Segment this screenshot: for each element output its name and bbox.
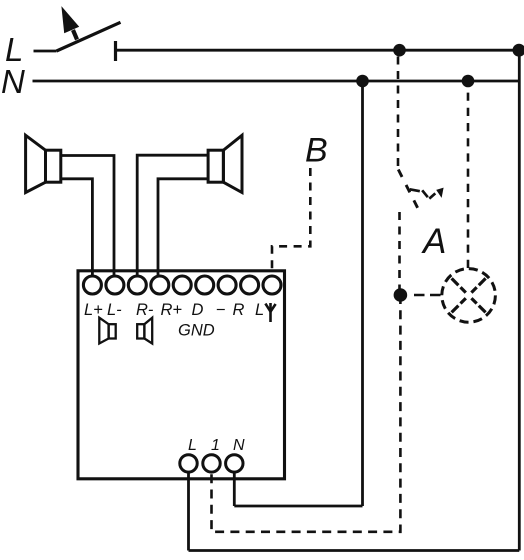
bottom terminal N [226,455,243,472]
svg-text:N: N [1,63,25,100]
svg-text:D: D [192,301,204,319]
wire: N bottom run [234,505,362,508]
svg-text:L: L [188,437,197,454]
switch A blade (dashed) [398,170,418,209]
receiver box U1 [78,271,285,479]
terminal T5 [173,276,191,294]
terminal T8 [241,276,259,294]
wire: L line [116,49,520,52]
antenna symbol [265,303,275,322]
terminal T6 [196,276,214,294]
terminal T1 [83,276,101,294]
svg-text:A: A [421,222,446,261]
speaker icon right [144,318,152,344]
speaker LS2 driver [208,150,223,182]
wire: N terminal drop [233,472,236,506]
wire: dashed N feed to lamp [467,88,470,268]
wire: N branch vertical [361,81,364,506]
switch S1 actuation arrow [61,6,79,39]
svg-text:GND: GND [178,322,215,340]
wire: switched-L right drop [518,50,521,550]
svg-text:L+: L+ [84,301,103,319]
svg-text:N: N [233,437,245,454]
svg-text:L-: L- [107,301,122,319]
terminal T4 [151,276,169,294]
switch S1 contact tick [114,41,117,61]
wire: dashed node to lamp [414,294,441,297]
wire: N line [33,80,520,83]
switch S1 wire stub [34,50,57,53]
terminal T9 antenna [263,276,281,294]
junction dot on L line [393,44,406,57]
lamp E1 circle [442,269,496,323]
wire: dashed node down and to terminal 1 [212,295,401,532]
junction dot L line right corner [513,44,524,57]
speaker LS1 cone [26,135,46,192]
svg-text:R-: R- [136,301,154,319]
wire: dashed drop from L to switch A [397,57,400,167]
node dot (lamp tap) [394,288,408,302]
terminal T2 [106,276,124,294]
bottom terminal 1 [203,455,220,472]
wire: LS1 bottom lead [61,179,93,276]
wire: antenna dashed lead B [272,168,310,271]
svg-text:R: R [233,301,245,319]
svg-text:L: L [255,301,264,319]
svg-text:R+: R+ [161,301,183,319]
lamp E1 cross [452,278,486,312]
svg-text:1: 1 [211,437,220,454]
terminal T3 [128,276,146,294]
wire: LS2 top lead [137,155,208,276]
wire: dashed from switch A to node [398,212,401,295]
speaker LS2 cone [223,135,242,192]
junction dot on N line (lamp feed) [462,75,475,88]
svg-text:−: − [216,301,226,319]
terminal T7 [218,276,236,294]
speaker LS1 driver [46,150,61,182]
wire: L terminal drop [187,472,190,551]
junction dot on N line (branch) [356,75,369,88]
wire: LS2 bottom lead [158,179,208,276]
speaker icon left [99,318,108,344]
wire: bottom run to L terminal [189,549,520,552]
switch A arrow [410,188,444,199]
bottom terminal L [180,455,197,472]
switch S1 blade [57,22,121,51]
wire: LS1 top lead [61,156,114,276]
svg-text:B: B [305,132,328,170]
